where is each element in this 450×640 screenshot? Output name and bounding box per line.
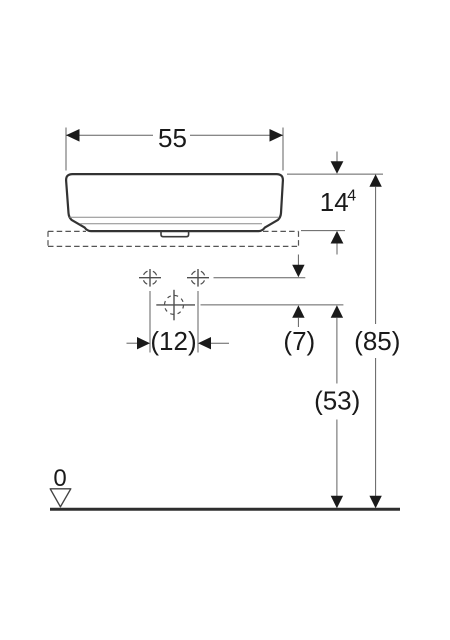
dimension 7 bottom arrow [292,305,304,327]
tap hole axis line to dimension 7 [214,277,306,279]
dimension label (7) [283,326,315,356]
dimension 12 arrow left [127,337,151,349]
dimension label (85) [354,326,400,356]
svg-text:(53): (53) [314,386,360,416]
countertop cutout dashed top left segment [48,230,86,232]
dimension 14sup4 top arrow [331,152,344,174]
dimension 55 line [66,134,283,136]
countertop cutout dashed bottom [48,245,299,247]
dimension 55 extension line left [65,128,67,171]
dimension label (53) [314,386,360,416]
dimension label 55 [158,123,187,153]
svg-text:(85): (85) [354,326,400,356]
svg-text:14: 14 [320,187,349,217]
faucet hole axis line [201,304,344,306]
dimension 53 line with arrows [331,305,343,508]
svg-text:(12): (12) [150,326,196,356]
dimension 7 top arrow [292,255,304,278]
dimension 14sup4 bottom arrow [331,231,344,255]
svg-text:(7): (7) [283,326,315,356]
dimension 14sup4 top reference line [287,173,383,175]
countertop cutout dashed right edge [298,231,300,246]
dimension label (12) [150,326,196,356]
tap hole marker left [139,269,161,287]
dimension 55 arrow left [66,129,80,142]
dimension 55 arrow right [270,129,284,142]
dimension 12 extension line right [197,291,199,353]
dimension 85 line with arrows [369,174,381,508]
washbasin rim contour line lower [80,223,262,225]
washbasin outline [66,174,283,231]
svg-text:0: 0 [53,465,66,492]
datum zero label [53,465,66,492]
washbasin drain boss [161,231,189,236]
faucet hole dashed circle [156,290,195,321]
svg-text:55: 55 [158,123,187,153]
countertop cutout dashed left edge [47,231,49,246]
countertop cutout dashed top right segment [263,230,299,232]
datum triangle symbol [50,489,71,507]
dimension label 14 superscript 4 [320,187,357,217]
tap hole marker right [187,269,209,287]
floor line [50,508,400,511]
dimension 14sup4 bottom reference line [301,230,345,232]
dimension 12 extension line left [149,291,151,353]
washbasin rim contour line upper [70,216,280,218]
dimension 12 arrow right [198,337,229,349]
dimension 55 extension line right [282,128,284,171]
svg-text:4: 4 [347,187,356,204]
